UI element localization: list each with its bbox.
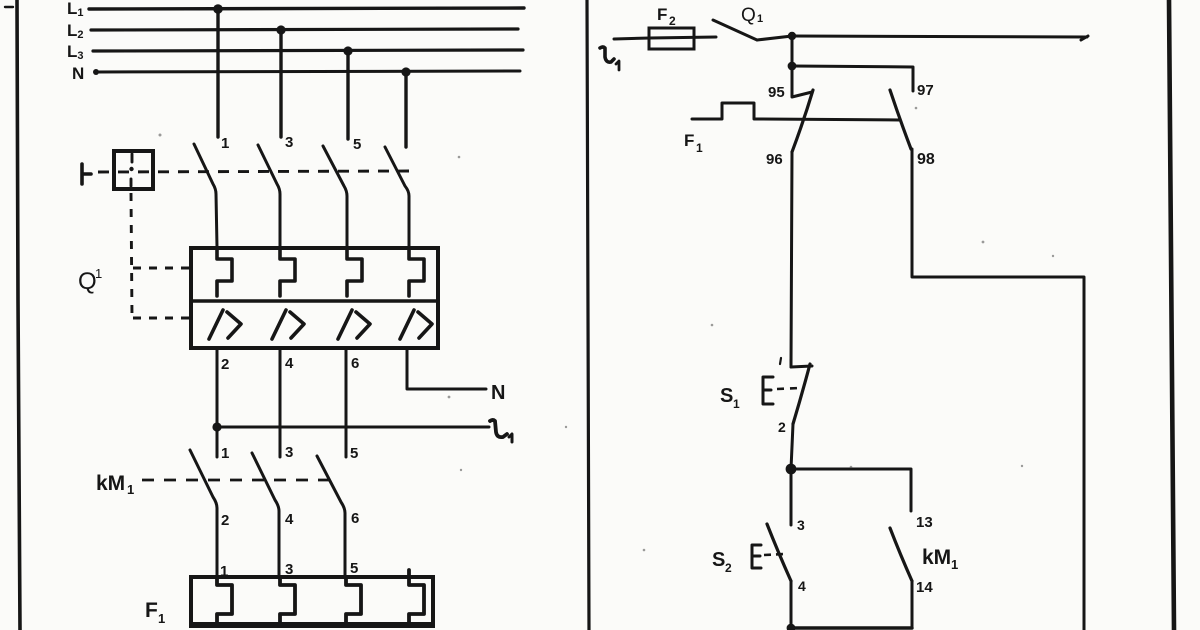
handle tick <box>82 164 91 184</box>
svg-text:14: 14 <box>916 579 933 596</box>
contactor KM1 pole3 blade <box>317 456 345 578</box>
svg-text:4: 4 <box>285 511 294 528</box>
svg-text:2: 2 <box>669 14 676 28</box>
paper speckles <box>159 107 1055 552</box>
node dot branch <box>788 62 797 71</box>
linkage dashed line horizontal <box>98 171 411 172</box>
overload F1 body box <box>191 577 433 626</box>
switch Q1 blade control <box>713 20 757 40</box>
bus L1 wire <box>89 8 524 9</box>
svg-text:kM: kM <box>96 472 125 495</box>
svg-text:95: 95 <box>768 84 785 101</box>
wire KM1 aux down <box>911 581 914 628</box>
svg-text:1: 1 <box>696 141 703 155</box>
label Q1 <box>78 266 102 295</box>
node L2 junction <box>276 25 285 34</box>
thermal element pole2 <box>280 248 295 296</box>
node dot parallel <box>786 464 797 475</box>
svg-text:2: 2 <box>221 356 229 373</box>
node dot bottom <box>787 624 796 630</box>
node dot main <box>788 32 796 40</box>
overload element pole2 <box>280 577 295 626</box>
svg-text:3: 3 <box>797 517 805 533</box>
label S2 <box>712 549 732 575</box>
wire 96 to S1 <box>791 152 792 367</box>
svg-text:1: 1 <box>127 482 134 497</box>
actuator dashes S2 <box>764 554 784 555</box>
wire pole3 drop <box>346 51 349 139</box>
overload element pole4 <box>409 570 424 626</box>
magnetic trip pole4 <box>400 310 432 339</box>
svg-text:1: 1 <box>221 445 229 462</box>
svg-text:4: 4 <box>285 355 294 372</box>
wire 98 down and right <box>912 149 1084 630</box>
contact 95 terminal hook <box>792 66 812 97</box>
node dot l1 <box>212 422 221 431</box>
actuator E S2 <box>752 545 761 568</box>
label kM1 aux <box>922 546 958 572</box>
svg-text:97: 97 <box>917 82 934 99</box>
svg-text:S: S <box>720 385 733 407</box>
wire pole4 drop <box>404 72 407 147</box>
button S2 blade <box>767 524 791 581</box>
svg-text:kM: kM <box>922 546 951 569</box>
thermal element pole3 <box>347 248 362 296</box>
linkage dashed line KM1 <box>142 479 330 482</box>
svg-text:N: N <box>72 64 84 83</box>
linkage dashed line vertical <box>131 193 132 318</box>
wire S1 to node <box>791 424 793 469</box>
button S1 blade <box>793 364 810 424</box>
contact KM1 aux blade <box>890 528 912 581</box>
mechanism box <box>114 151 153 189</box>
contact 95-96 blade <box>792 90 813 152</box>
pin 1 tick S1 <box>780 358 781 364</box>
svg-text:2: 2 <box>725 561 732 575</box>
wire bottom join <box>791 626 912 629</box>
bus L3 wire <box>93 50 523 51</box>
label kM1 <box>96 472 134 497</box>
wire pole2 drop <box>279 30 282 137</box>
magnetic trip pole3 <box>338 310 370 339</box>
linkage dashed stub upper <box>133 267 189 270</box>
svg-text:5: 5 <box>350 560 358 577</box>
wire node drop <box>791 36 794 66</box>
breaker Q1 pole2 blade <box>258 145 280 247</box>
svg-text:1: 1 <box>757 13 763 25</box>
wire to fuse <box>614 38 650 39</box>
label S1 <box>720 385 740 411</box>
label l1 left <box>490 420 512 442</box>
node N junction <box>401 67 410 76</box>
wire pole2 exit <box>279 348 282 457</box>
magnetic trip pole1 <box>209 310 241 339</box>
svg-text:F: F <box>657 5 667 24</box>
label F2 <box>657 5 676 28</box>
wire pole4 exit to N <box>407 348 486 389</box>
thermal element pole4 <box>409 248 424 296</box>
button S1 terminal hook <box>791 360 812 367</box>
breaker Q1 body box <box>191 248 438 348</box>
svg-text:13: 13 <box>916 514 933 531</box>
svg-text:1: 1 <box>158 611 165 626</box>
wire branch to 97 <box>792 66 913 91</box>
svg-text:S: S <box>712 549 725 571</box>
svg-text:N: N <box>491 382 505 404</box>
fuse F2 body <box>649 28 694 49</box>
svg-text:4: 4 <box>798 578 806 594</box>
svg-text:Q: Q <box>78 268 97 295</box>
actuator E S1 <box>763 377 773 404</box>
svg-text:1: 1 <box>951 557 958 572</box>
node L1 junction <box>213 4 223 14</box>
contact 97-98 blade <box>890 90 911 149</box>
label F1 power <box>145 599 165 626</box>
svg-text:98: 98 <box>917 151 935 168</box>
wire main horizontal <box>792 36 1088 40</box>
overload element pole3 <box>346 577 361 626</box>
contactor KM1 pole1 blade <box>190 450 217 578</box>
overload element pole1 <box>217 577 232 626</box>
thermal element pole1 <box>217 248 232 296</box>
svg-text:1: 1 <box>95 266 102 281</box>
svg-text:3: 3 <box>285 444 293 461</box>
linkage dashed stub lower <box>133 317 189 320</box>
wire pole1 drop <box>216 9 219 137</box>
svg-text:3: 3 <box>285 134 293 151</box>
svg-text:6: 6 <box>351 510 359 527</box>
svg-text:Q: Q <box>741 5 756 26</box>
fuse F2 through wire <box>650 37 716 38</box>
wire pole1 exit <box>216 348 219 457</box>
svg-text:6: 6 <box>351 355 359 372</box>
svg-text:2: 2 <box>221 512 229 529</box>
contactor KM1 pole2 blade <box>252 453 279 578</box>
right border frame line <box>1169 0 1174 630</box>
svg-text:2: 2 <box>778 419 786 435</box>
wire node to S2 <box>790 469 793 525</box>
actuator dashes S1 <box>777 388 800 389</box>
top-left tick mark <box>5 6 13 8</box>
left border frame line <box>17 0 20 630</box>
bus N wire <box>96 71 520 72</box>
label l1 right <box>600 47 619 70</box>
linkage F1 control <box>692 103 900 120</box>
mechanism dash-dot center <box>131 154 132 186</box>
magnetic trip pole2 <box>272 310 304 339</box>
wire pole3 exit <box>345 348 348 457</box>
wire l1 node line <box>217 426 489 429</box>
wire blade to node <box>757 36 792 40</box>
node dot N start <box>93 69 99 75</box>
svg-text:96: 96 <box>766 151 783 168</box>
svg-text:F: F <box>684 131 694 150</box>
label F1 control <box>684 131 703 155</box>
svg-text:1: 1 <box>733 397 740 411</box>
breaker Q1 pole3 blade <box>323 146 347 247</box>
breaker Q1 pole1 blade <box>194 144 217 247</box>
breaker Q1 body divider <box>191 299 438 302</box>
svg-text:5: 5 <box>350 445 358 462</box>
bus L2 wire <box>91 29 518 30</box>
svg-text:F: F <box>145 599 158 622</box>
wire node to KM branch <box>791 469 911 511</box>
node L3 junction <box>343 46 352 55</box>
svg-text:5: 5 <box>353 136 361 153</box>
center divider line <box>587 0 589 630</box>
wire S2 down <box>790 581 793 628</box>
breaker Q1 pole4 blade <box>385 147 409 247</box>
svg-text:1: 1 <box>221 135 229 152</box>
label Q1 control <box>741 5 763 26</box>
